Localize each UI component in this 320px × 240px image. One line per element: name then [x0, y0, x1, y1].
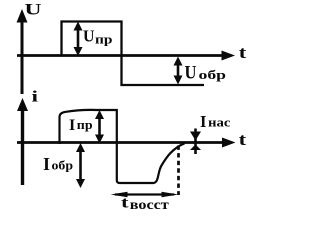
Ipr label [69, 117, 93, 134]
current i waveform [60, 110, 185, 183]
Iobr double arrow [76, 143, 85, 188]
Uobr double arrow [174, 57, 183, 85]
svg-text:пр: пр [77, 117, 93, 132]
svg-text:обр: обр [199, 67, 227, 82]
svg-text:обр: обр [52, 158, 74, 173]
svg-text:U: U [83, 26, 95, 45]
svg-text:U: U [25, 1, 43, 18]
svg-text:U: U [185, 63, 197, 84]
Upr label [83, 26, 113, 46]
svg-text:I: I [43, 154, 50, 174]
Inas label [200, 112, 231, 131]
i axis vertical [17, 98, 28, 185]
svg-text:i: i [32, 89, 39, 106]
U pulse waveform [62, 22, 205, 86]
svg-text:нас: нас [208, 115, 231, 130]
t axis horizontal (top) [17, 51, 235, 61]
t axis horizontal (bottom) [17, 138, 236, 148]
svg-text:I: I [200, 112, 206, 131]
Upr double arrow [74, 22, 83, 57]
dashed line at recovery time [177, 146, 180, 196]
Iobr label [43, 154, 73, 174]
svg-text:t: t [239, 130, 247, 149]
svg-text:t: t [239, 43, 247, 62]
Inas pinch double arrow [190, 129, 201, 155]
svg-text:восст: восст [130, 198, 169, 213]
t_vosst label [121, 195, 169, 214]
Uobr label [185, 63, 227, 84]
U axis vertical [17, 9, 28, 94]
t_vosst double arrow [111, 192, 179, 198]
Ipr double arrow [95, 110, 104, 144]
svg-text:I: I [69, 117, 75, 134]
svg-text:пр: пр [95, 32, 113, 47]
svg-text:t: t [121, 195, 129, 212]
